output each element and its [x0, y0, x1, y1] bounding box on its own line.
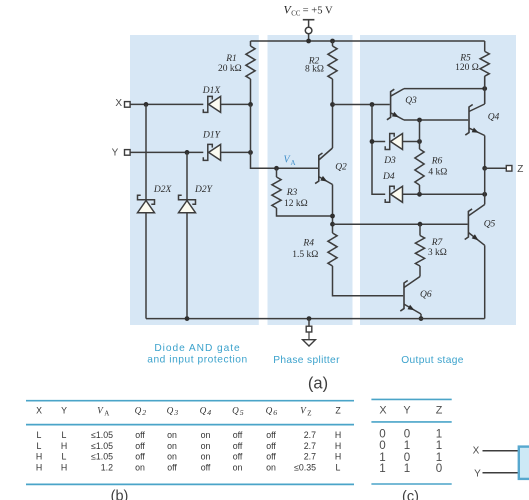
svg-text:off: off — [266, 430, 276, 440]
svg-text:0: 0 — [436, 462, 442, 475]
label Q2 — [335, 163, 347, 173]
label (c) — [402, 489, 419, 500]
svg-text:off: off — [266, 452, 276, 462]
junction VCC-rail at R2 — [330, 39, 335, 44]
svg-text:off: off — [135, 441, 145, 451]
label Q3 — [405, 96, 417, 106]
gate symbol wire X — [483, 450, 519, 452]
svg-text:A: A — [291, 159, 296, 167]
svg-text:R3: R3 — [286, 188, 298, 198]
svg-text:= +5 V: = +5 V — [303, 5, 333, 16]
svg-text:R6: R6 — [431, 157, 443, 167]
svg-text:off: off — [233, 441, 243, 451]
svg-text:≤1.05: ≤1.05 — [91, 430, 113, 440]
svg-text:Q5: Q5 — [484, 220, 496, 230]
label (a) — [308, 375, 328, 393]
svg-text:L: L — [37, 441, 42, 451]
transistor Q6 — [400, 277, 421, 315]
svg-text:on: on — [135, 462, 145, 472]
svg-text:X: X — [379, 405, 386, 417]
svg-text:on: on — [233, 462, 243, 472]
svg-text:2: 2 — [142, 408, 146, 417]
junction R5 bottom / Q3 collector — [482, 86, 487, 91]
diode D2X — [138, 195, 155, 213]
wire node to VA / Q2 base — [251, 152, 319, 168]
label D2Y — [194, 185, 214, 195]
svg-text:H: H — [36, 452, 42, 462]
svg-text:on: on — [201, 452, 211, 462]
table c top rule — [371, 398, 451, 400]
junction D4 / R6 bottom — [417, 192, 422, 197]
transistor Q2 — [315, 148, 332, 185]
wire Z node to Q5 collector — [484, 168, 486, 204]
wire R7 top stub — [419, 224, 421, 235]
label Q6 — [420, 290, 432, 300]
svg-text:V: V — [300, 405, 307, 415]
VCC supply terminal — [303, 20, 315, 41]
svg-text:2.7: 2.7 — [304, 452, 316, 462]
svg-text:Y: Y — [61, 405, 67, 415]
wire Y branch to D2Y — [186, 152, 188, 199]
svg-text:≤0.35: ≤0.35 — [294, 462, 316, 472]
junction X line to D2X branch — [144, 102, 149, 107]
svg-text:L: L — [62, 430, 67, 440]
svg-text:Q: Q — [167, 405, 174, 415]
junction D2Y on rail — [185, 316, 190, 321]
label R4 1.5 kOhm — [292, 239, 318, 260]
svg-text:1: 1 — [404, 462, 410, 475]
wire Q5 emitter to ground rail — [484, 245, 486, 318]
svg-text:on: on — [201, 430, 211, 440]
label VA — [284, 155, 296, 168]
transistor Q4 — [465, 104, 484, 136]
junction node X/Y column — [248, 150, 253, 155]
svg-text:Q2: Q2 — [335, 163, 347, 173]
table b data rows — [36, 430, 341, 472]
svg-text:Q6: Q6 — [420, 290, 432, 300]
junction D3 right — [417, 139, 422, 144]
svg-text:3: 3 — [173, 408, 178, 417]
wire R4 bottom to Q6 base — [333, 266, 404, 296]
wire D3 right to R6 column — [403, 141, 420, 143]
svg-text:8 kΩ: 8 kΩ — [305, 65, 324, 75]
diode D4 — [385, 186, 402, 202]
junction R6 top — [417, 118, 422, 123]
svg-text:H: H — [61, 441, 67, 451]
wire R6 bottom stub — [419, 185, 421, 194]
svg-text:D4: D4 — [382, 172, 395, 182]
svg-text:H: H — [335, 441, 341, 451]
gate symbol input label Y — [474, 468, 481, 479]
svg-text:R4: R4 — [302, 239, 314, 249]
wire ground rail — [146, 318, 485, 320]
wire D2Y to ground rail — [186, 213, 188, 319]
wire D3 left — [372, 141, 385, 143]
diode D2Y — [179, 195, 196, 213]
wire phase splitter to Q5 base — [333, 223, 468, 225]
svg-text:D2X: D2X — [153, 185, 173, 195]
wire R5/Q3 column to Q4 collector — [484, 76, 486, 104]
svg-text:2.7: 2.7 — [304, 430, 316, 440]
label D1Y — [202, 131, 222, 141]
junction Q3 base / D3-D4 branch — [370, 102, 375, 107]
svg-text:H: H — [335, 452, 341, 462]
resistor R6 — [415, 149, 424, 185]
label R7 3 kOhm — [428, 238, 447, 258]
svg-text:CC: CC — [291, 11, 301, 18]
svg-text:off: off — [233, 452, 243, 462]
svg-text:20 kΩ: 20 kΩ — [218, 64, 242, 74]
label Q5 — [484, 220, 496, 230]
svg-text:Q4: Q4 — [488, 113, 500, 123]
svg-text:Diode AND gate: Diode AND gate — [154, 343, 240, 354]
junction Q6 emitter on rail — [419, 316, 424, 321]
wire VCC rail — [251, 40, 485, 42]
svg-text:Z: Z — [517, 164, 523, 175]
label R6 4 kOhm — [428, 157, 447, 178]
svg-text:Q: Q — [232, 405, 239, 415]
wire Q3 collector to R5 column — [404, 88, 485, 90]
svg-text:D1Y: D1Y — [202, 131, 222, 141]
svg-text:4 kΩ: 4 kΩ — [428, 168, 447, 178]
wire Q6 emitter to ground rail — [420, 314, 422, 319]
svg-text:on: on — [167, 441, 177, 451]
svg-text:Phase splitter: Phase splitter — [273, 355, 340, 366]
table b bottom rule — [26, 483, 354, 485]
label R2 8 kOhm — [305, 57, 324, 75]
svg-text:Q3: Q3 — [405, 96, 417, 106]
svg-text:L: L — [336, 462, 341, 472]
junction node R1/D1X — [248, 102, 253, 107]
table b top rule — [26, 400, 354, 402]
junction D3 left — [370, 139, 375, 144]
svg-text:H: H — [36, 462, 42, 472]
junction D4 line / output column — [482, 192, 487, 197]
input terminal X — [115, 98, 130, 109]
svg-text:off: off — [135, 430, 145, 440]
svg-text:on: on — [266, 462, 276, 472]
svg-text:A: A — [104, 410, 109, 418]
svg-text:D1X: D1X — [202, 86, 222, 96]
table c mid rule — [371, 421, 451, 423]
label R3 12 kOhm — [284, 188, 308, 209]
svg-text:(b): (b) — [111, 489, 129, 500]
junction VCC-rail at supply — [306, 39, 311, 44]
junction Z node — [482, 166, 487, 171]
svg-text:12 kΩ: 12 kΩ — [284, 199, 308, 209]
resistor R4 — [328, 233, 337, 266]
svg-text:Y: Y — [112, 148, 119, 159]
svg-text:120 Ω: 120 Ω — [455, 63, 479, 73]
table b header — [36, 405, 341, 417]
panel: output stage region — [360, 35, 516, 325]
svg-text:X: X — [36, 405, 42, 415]
svg-text:off: off — [135, 452, 145, 462]
junction R7 top — [418, 222, 423, 227]
input terminal Y — [112, 148, 130, 159]
diode D3 — [385, 134, 402, 150]
svg-text:1.2: 1.2 — [101, 462, 113, 472]
junction Q2 collector to Q3 base line — [330, 102, 335, 107]
junction ground symbol on rail — [307, 316, 312, 321]
svg-text:H: H — [61, 462, 67, 472]
label R1 20 kOhm — [218, 54, 242, 74]
svg-text:off: off — [167, 462, 177, 472]
wire R3 bottom to Q2 emitter node — [277, 208, 333, 216]
wire R7 bottom to Q6 collector — [419, 266, 421, 277]
svg-text:X: X — [473, 446, 480, 457]
svg-text:off: off — [233, 430, 243, 440]
label D2X — [153, 185, 173, 195]
node VA junction — [274, 166, 279, 171]
svg-text:Q: Q — [200, 405, 207, 415]
wire Y to D1Y — [130, 151, 203, 153]
label D1X — [202, 86, 222, 96]
diode D1Y — [203, 144, 220, 160]
gate symbol wire Y — [483, 472, 519, 474]
wire D1X to node — [221, 103, 251, 105]
svg-text:L: L — [37, 430, 42, 440]
gate symbol body (NAND, cut off) — [519, 447, 529, 479]
svg-text:(c): (c) — [402, 489, 419, 500]
label (b) — [111, 489, 129, 500]
resistor R2 — [328, 41, 337, 148]
caption output stage — [401, 355, 464, 366]
svg-text:Q: Q — [135, 405, 142, 415]
transistor Q5 — [465, 205, 485, 246]
svg-text:on: on — [201, 441, 211, 451]
svg-text:on: on — [167, 452, 177, 462]
svg-text:H: H — [335, 430, 341, 440]
svg-text:V: V — [97, 405, 104, 415]
svg-text:≤1.05: ≤1.05 — [91, 441, 113, 451]
svg-text:4: 4 — [207, 408, 211, 417]
junction Y line to D2Y branch — [185, 150, 190, 155]
svg-text:off: off — [266, 441, 276, 451]
svg-text:Y: Y — [474, 468, 481, 479]
svg-text:X: X — [115, 98, 122, 109]
table c bottom rule — [371, 483, 451, 485]
svg-text:Z: Z — [307, 410, 311, 418]
resistor R3 — [272, 168, 281, 208]
svg-text:D2Y: D2Y — [194, 185, 214, 195]
svg-text:on: on — [167, 430, 177, 440]
svg-text:Z: Z — [335, 405, 341, 415]
svg-text:5: 5 — [240, 408, 244, 417]
svg-text:off: off — [201, 462, 211, 472]
svg-text:(a): (a) — [308, 375, 328, 393]
wire Q4 emitter to Z node — [484, 136, 486, 169]
panel: diode AND gate and input protection region — [130, 35, 259, 325]
wire D4 right to Q5 collector column — [403, 193, 485, 195]
gate symbol input label X — [473, 446, 480, 457]
junction R3 return — [330, 214, 335, 219]
label R5 120 Ohm — [455, 54, 479, 74]
wire Q2 collector to Q3 base — [333, 104, 390, 106]
diode D1X — [203, 96, 220, 112]
junction phase splitter output — [330, 222, 335, 227]
svg-text:2.7: 2.7 — [304, 441, 316, 451]
svg-text:6: 6 — [273, 408, 277, 417]
wire X branch to D2X — [145, 104, 147, 199]
svg-text:R5: R5 — [459, 54, 471, 64]
resistor R5 — [480, 41, 489, 104]
svg-text:Z: Z — [436, 405, 443, 417]
resistor R7 — [415, 236, 424, 267]
svg-text:1: 1 — [379, 462, 385, 475]
wire Q2 emitter down to R4 — [332, 185, 334, 234]
label VCC = +5 V — [284, 2, 333, 17]
label D4 — [382, 172, 395, 182]
wire D1Y to node — [221, 151, 251, 153]
resistor R1 — [246, 41, 255, 104]
svg-text:Q: Q — [266, 405, 273, 415]
svg-text:≤1.05: ≤1.05 — [91, 452, 113, 462]
caption phase splitter — [273, 355, 340, 366]
panel: phase splitter region — [268, 35, 353, 325]
wire X to D1X — [130, 103, 203, 105]
svg-text:1.5 kΩ: 1.5 kΩ — [292, 250, 318, 260]
svg-text:Output stage: Output stage — [401, 355, 464, 366]
svg-text:L: L — [62, 452, 67, 462]
wire Q3 emitter to Q4 base — [404, 119, 468, 121]
table b mid rule — [26, 424, 354, 426]
svg-text:D3: D3 — [383, 156, 396, 166]
svg-text:Y: Y — [403, 405, 410, 417]
wire node column X to Y — [250, 104, 252, 152]
wire D3-D4 left branch — [372, 105, 385, 195]
wire Z node to terminal — [485, 167, 507, 169]
label Q4 — [488, 113, 500, 123]
wire R6 top stub — [419, 120, 421, 149]
svg-text:R7: R7 — [431, 238, 444, 248]
caption diode AND gate region — [147, 343, 248, 366]
svg-text:R1: R1 — [225, 54, 237, 64]
label D3 — [383, 156, 396, 166]
table c header — [379, 405, 442, 417]
ground symbol — [303, 319, 316, 346]
wire D2X to ground rail — [145, 213, 147, 319]
transistor Q3 — [387, 89, 404, 120]
svg-text:and input protection: and input protection — [147, 354, 248, 365]
output terminal Z — [506, 164, 523, 175]
table c data rows — [379, 428, 442, 475]
svg-text:3 kΩ: 3 kΩ — [428, 248, 447, 258]
